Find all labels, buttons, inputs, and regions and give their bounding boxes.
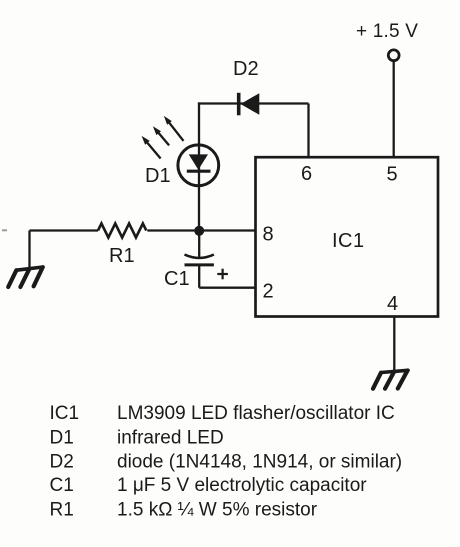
IC IC1 box <box>256 157 439 316</box>
wire down to left ground <box>28 231 30 269</box>
svg-text:LM3909 LED flasher/oscillator: LM3909 LED flasher/oscillator IC <box>117 403 395 424</box>
svg-text:IC1: IC1 <box>50 403 80 424</box>
wire C1 bottom plate down <box>198 265 200 288</box>
svg-text:8: 8 <box>263 224 274 246</box>
svg-text:1.5 kΩ ¼ W 5% resistor: 1.5 kΩ ¼ W 5% resistor <box>117 500 318 521</box>
svg-text:diode (1N4148, 1N914, or simil: diode (1N4148, 1N914, or similar) <box>117 452 402 473</box>
wire LED top up to D2 row <box>198 102 200 146</box>
svg-text:D2: D2 <box>233 58 259 80</box>
wire R1 to pin 8 <box>147 229 256 231</box>
wire pin 4 to ground <box>393 317 395 371</box>
svg-text:IC1: IC1 <box>332 230 365 252</box>
D1 emission arrow 3 <box>164 116 184 141</box>
wire junction to C1 top plate <box>198 231 200 258</box>
ground (left) <box>8 267 43 287</box>
C1 polarity plus sign <box>217 269 228 280</box>
svg-text:D1: D1 <box>50 428 74 449</box>
svg-text:infrared LED: infrared LED <box>117 428 224 449</box>
svg-text:D2: D2 <box>50 452 74 473</box>
capacitor C1 <box>185 255 214 265</box>
resistor R1 <box>98 224 146 238</box>
wire D2 horizontal <box>198 102 309 104</box>
wire C1 to pin 2 <box>199 287 256 289</box>
svg-text:5: 5 <box>387 164 398 186</box>
power terminal <box>388 50 399 61</box>
wire left of R1 <box>30 229 99 231</box>
svg-text:C1: C1 <box>50 475 74 496</box>
diode D2 <box>239 93 260 116</box>
svg-text:C1: C1 <box>164 268 190 290</box>
wire V+ terminal to pin 5 <box>393 61 395 158</box>
svg-text:D1: D1 <box>145 165 171 187</box>
svg-text:6: 6 <box>301 163 312 185</box>
svg-text:4: 4 <box>387 293 398 315</box>
svg-text:1 μF 5 V electrolytic capacito: 1 μF 5 V electrolytic capacitor <box>117 475 367 496</box>
D1 emission arrow 1 <box>142 136 161 159</box>
wire LED through to junction <box>198 146 200 231</box>
wire D2 down to pin 6 <box>307 104 309 159</box>
ground (below pin 4) <box>373 370 408 388</box>
svg-text:2: 2 <box>263 281 274 303</box>
node junction (R1 / D1 / C1 / pin 8) <box>194 226 204 236</box>
svg-text:R1: R1 <box>109 245 135 267</box>
svg-text:+ 1.5 V: + 1.5 V <box>356 21 418 42</box>
scan speck at left margin <box>2 229 7 231</box>
D1 emission arrow 2 <box>153 126 169 145</box>
svg-text:R1: R1 <box>50 500 74 521</box>
LED D1 <box>178 145 219 186</box>
